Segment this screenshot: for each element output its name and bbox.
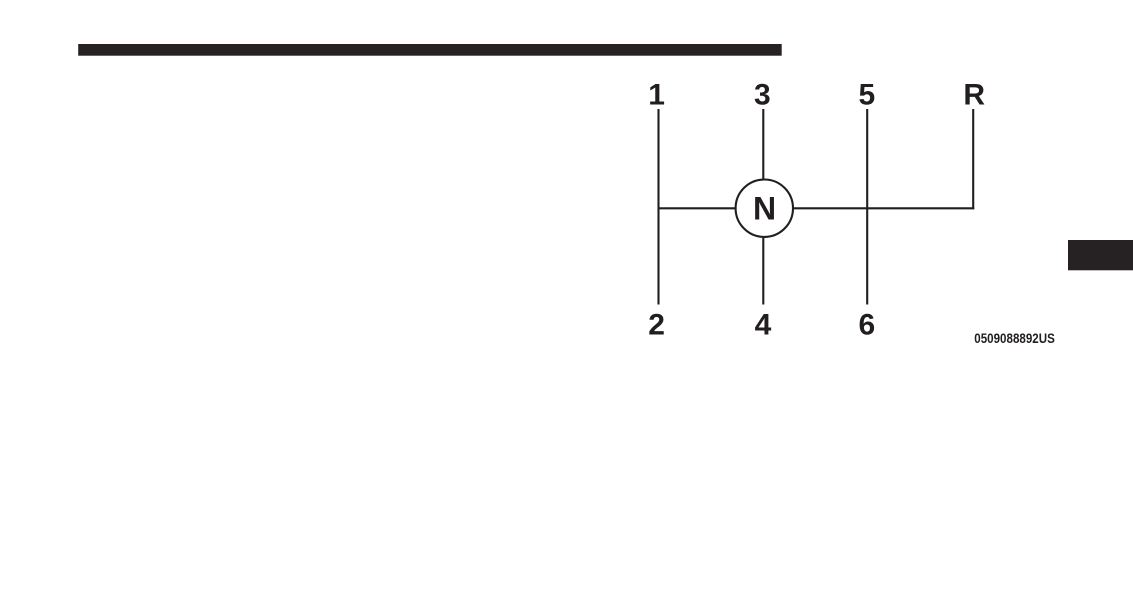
- svg-text:3: 3: [754, 79, 771, 112]
- page edge tab: [1068, 240, 1133, 270]
- wire: gate R vertical: [972, 109, 974, 209]
- wire: crossbar left segment: [658, 207, 736, 209]
- wire: gate 4 lower vertical: [762, 237, 764, 304]
- svg-text:6: 6: [858, 309, 875, 342]
- wire: crossbar right segment: [793, 207, 974, 209]
- svg-text:4: 4: [755, 309, 772, 342]
- svg-text:5: 5: [858, 79, 875, 112]
- svg-text:R: R: [963, 79, 985, 112]
- node N: neutral circle: [736, 180, 793, 237]
- svg-text:2: 2: [648, 309, 665, 342]
- wire: gate 3 upper vertical: [762, 109, 764, 180]
- svg-text:0509088892US: 0509088892US: [974, 330, 1055, 346]
- header rule bar: [78, 44, 782, 56]
- wire: gate 1-2 vertical: [657, 109, 659, 305]
- svg-text:N: N: [753, 191, 776, 227]
- svg-text:1: 1: [648, 79, 665, 112]
- wire: gate 5-6 vertical: [866, 109, 868, 305]
